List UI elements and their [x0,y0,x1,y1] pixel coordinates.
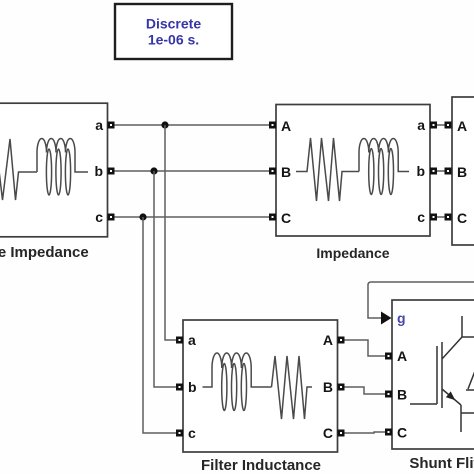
wire: Impedance b -> right block B [437,170,445,172]
svg-text:b: b [188,379,197,395]
svg-text:A: A [397,348,407,364]
svg-text:Filter Inductance: Filter Inductance [201,457,321,474]
wire: Filter Inductance A -> Shunt A [345,340,386,356]
port square a out (Source Impedance) [108,122,115,221]
junction node on wire b [150,167,157,174]
block: Source Impedance (cut off at left edge) [0,103,108,237]
svg-text:Source Impedance: Source Impedance [0,244,89,261]
svg-text:c: c [95,209,103,225]
port squares A B C in (right block) [445,122,452,221]
inductor Source Impedance loops [46,149,51,195]
svg-text:c: c [417,209,425,225]
icon: inductor+resistor of Filter Inductance [203,353,313,419]
svg-text:B: B [323,379,333,395]
svg-text:b: b [94,163,103,179]
IGBT emitter tick [461,412,474,414]
svg-text:a: a [417,117,425,133]
inductor Impedance humps [359,138,409,171]
svg-text:C: C [323,425,333,441]
svg-text:A: A [323,332,333,348]
svg-text:b: b [416,163,425,179]
inductor Impedance loops [369,149,374,195]
IGBT collector tick [462,336,474,338]
IGBT emitter diagonal [442,389,461,405]
inductor Filter Inductance humps [203,353,272,387]
IGBT gate bar left [436,346,438,404]
block: Impedance [276,105,430,237]
svg-text:c: c [188,425,196,441]
svg-text:1e-06 s.: 1e-06 s. [148,32,199,48]
IGBT collector diagonal [442,337,462,359]
inductor Source Impedance humps [37,139,88,173]
svg-text:Shunt Fliter: Shunt Fliter [409,455,474,472]
svg-text:B: B [281,164,291,180]
port squares A B C out (Filter Inductance) [338,337,345,437]
wire: Impedance a -> right block A [437,124,445,126]
IGBT emitter vertical [460,405,462,432]
block: Filter Inductance [183,320,338,452]
wire b: Source Impedance b -> Impedance B [115,170,270,172]
arrowhead of g wire [381,312,392,325]
svg-text:A: A [457,118,467,134]
IGBT emitter arrowhead [446,391,455,400]
resistor Filter Inductance [272,356,313,419]
IGBT gate bar right [441,342,443,408]
svg-text:C: C [281,210,291,226]
icon: resistor+inductor of Source Impedance [0,139,88,201]
svg-text:Discrete: Discrete [146,16,201,32]
svg-text:a: a [95,117,103,133]
wire a: Source Impedance a -> Impedance A [115,124,270,126]
inductor Filter Inductance loops [222,364,227,411]
svg-text:A: A [281,118,291,134]
port squares A B C in (Impedance) [269,122,276,221]
wire: branch c down to Filter Inductance c [143,217,176,433]
port squares a b c in (Filter Inductance) [176,337,183,437]
icon: IGBT of Shunt block [410,316,474,432]
wire: Impedance c -> right block C [437,216,445,218]
port squares A B C in (Shunt) [385,353,392,436]
diode partial triangle [466,371,474,390]
svg-text:a: a [188,332,196,348]
block: Discrete sample time (powergui) [115,4,232,59]
resistor Source Impedance (partial) [0,139,37,200]
IGBT gate lead [410,403,437,405]
wire: branch a down to Filter Inductance a [165,125,176,340]
block: Shunt Fliter (cut off at right edge) [392,300,474,449]
resistor Impedance [296,138,359,201]
wire: Filter Inductance C -> Shunt C [345,432,386,433]
wire: Filter Inductance B -> Shunt B [345,387,386,394]
block: right block (cut off at right edge) [452,97,474,245]
svg-text:C: C [397,425,407,441]
IGBT collector vertical [461,316,463,337]
wire: branch b down to Filter Inductance b [154,171,176,387]
junction node on wire a [161,121,168,128]
icon: resistor+inductor of Impedance [296,138,409,201]
svg-text:C: C [457,210,467,226]
svg-text:g: g [397,310,406,326]
svg-text:B: B [397,387,407,403]
svg-text:B: B [457,164,467,180]
junction node on wire c [139,213,146,220]
wire: gate signal into Shunt g (from right, off-screen) [368,282,474,318]
svg-text:Impedance: Impedance [316,245,389,261]
port squares a b c out (Impedance) [430,122,437,221]
wire c: Source Impedance c -> Impedance C [115,216,270,218]
